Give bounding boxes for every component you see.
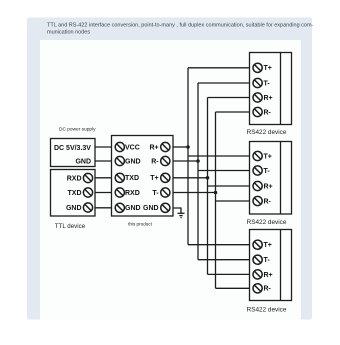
svg-text:VCC: VCC: [125, 144, 140, 151]
svg-text:T-: T-: [264, 257, 271, 264]
svg-text:RS422 device: RS422 device: [247, 307, 287, 314]
svg-text:R+: R+: [264, 95, 273, 102]
svg-text:R-: R-: [264, 109, 272, 116]
svg-text:GND: GND: [143, 205, 159, 212]
svg-text:RS422 device: RS422 device: [247, 219, 287, 226]
svg-text:R+: R+: [264, 272, 273, 279]
svg-text:TXD: TXD: [68, 190, 82, 197]
svg-text:TTL device: TTL device: [55, 223, 86, 230]
svg-text:GND: GND: [66, 205, 82, 212]
svg-text:R-: R-: [151, 158, 159, 165]
svg-text:T+: T+: [150, 175, 158, 182]
svg-text:R-: R-: [264, 286, 272, 293]
svg-text:T+: T+: [264, 242, 272, 249]
svg-text:RXD: RXD: [67, 175, 82, 182]
svg-text:T-: T-: [152, 190, 159, 197]
svg-text:GND: GND: [75, 159, 91, 166]
svg-text:T-: T-: [264, 168, 271, 175]
svg-text:DC 5V/3.3V: DC 5V/3.3V: [54, 145, 91, 152]
svg-text:T+: T+: [264, 65, 272, 72]
svg-text:RS422 device: RS422 device: [247, 129, 287, 136]
svg-text:RXD: RXD: [125, 190, 140, 197]
svg-text:this product: this product: [128, 222, 152, 227]
svg-text:DC power supply: DC power supply: [59, 127, 96, 133]
svg-text:R+: R+: [264, 183, 273, 190]
svg-text:TTL and RS-422 interface conve: TTL and RS-422 interface conversion, poi…: [47, 23, 314, 29]
svg-text:GND: GND: [125, 158, 141, 165]
svg-text:R+: R+: [149, 144, 158, 151]
svg-text:TXD: TXD: [125, 175, 139, 182]
svg-text:T+: T+: [264, 153, 272, 160]
svg-text:T-: T-: [264, 80, 271, 87]
svg-text:GND: GND: [125, 205, 141, 212]
svg-text:R-: R-: [264, 198, 272, 205]
svg-text:munication nodes: munication nodes: [47, 30, 90, 36]
